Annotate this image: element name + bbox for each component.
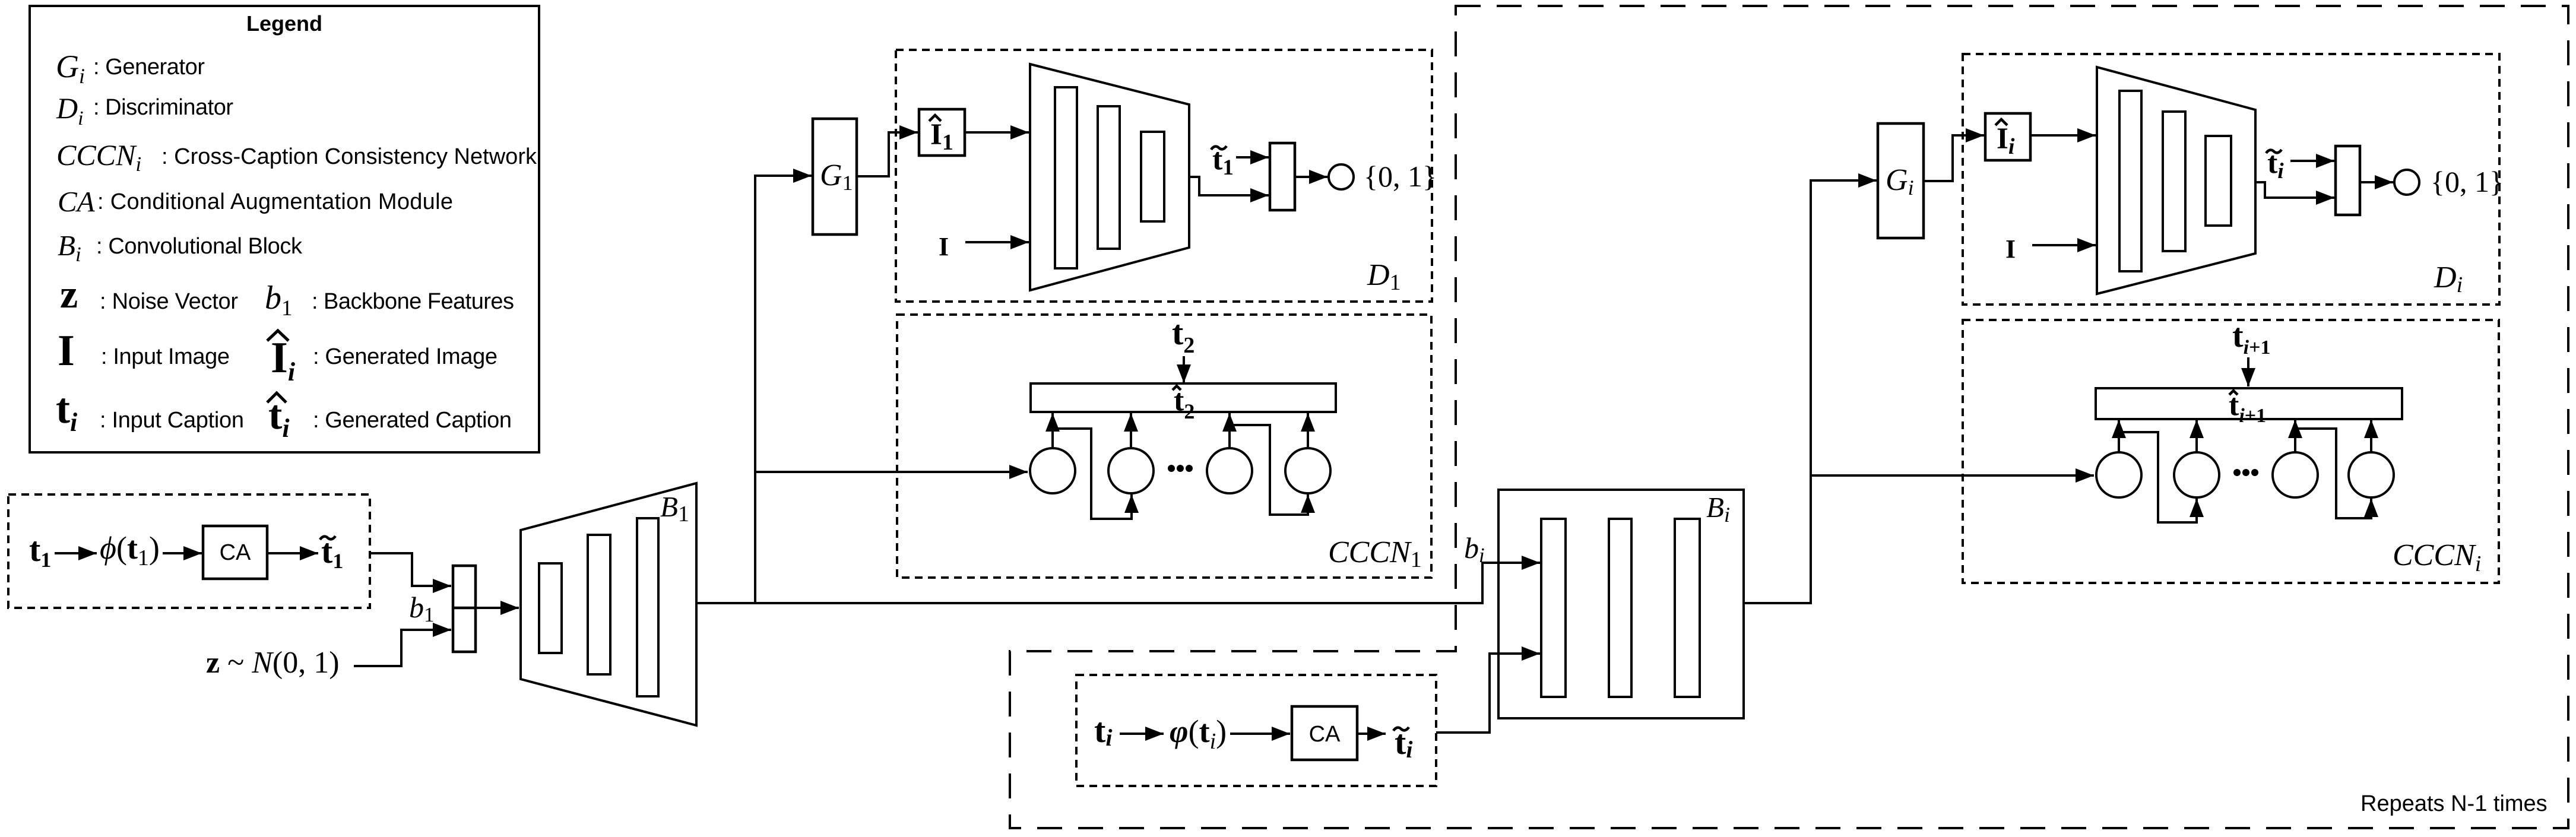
svg-text:I: I [58, 326, 75, 375]
wire I to D1 trapezoid [965, 241, 1029, 243]
decision circle 1 [1329, 164, 1354, 189]
svg-text:CCCNi: CCCNi [2393, 538, 2481, 576]
CCCNi circle 3 [2273, 452, 2318, 497]
wire I^i to Di trapezoid [2030, 134, 2096, 137]
concat box 3 [2336, 146, 2360, 215]
svg-text:Di: Di [56, 91, 84, 129]
CCCN1 up arrow 2 [1130, 413, 1132, 448]
CCCNi circle 4 [2349, 452, 2394, 497]
wire Gi to I^i [1924, 135, 1984, 181]
svg-text:t1: t1 [29, 530, 51, 572]
wire z to concat [354, 630, 451, 666]
G1 box [813, 119, 857, 234]
concat divider 1 [453, 607, 476, 610]
CCCNi up arrow 1 [2118, 420, 2120, 452]
D1 bar 3 [1141, 132, 1164, 221]
svg-text:: Backbone Features: : Backbone Features [312, 289, 514, 314]
CCCN1 circle 2 [1108, 448, 1154, 493]
svg-text:bi: bi [1464, 531, 1485, 567]
wire branch to CCCNi [1811, 474, 2094, 477]
CA module box 1 [203, 526, 267, 579]
Di dashed box [1963, 54, 2499, 305]
svg-text:Gi: Gi [56, 49, 85, 88]
CCCNi recurrent 3-4 [2295, 429, 2371, 518]
CCCNi dots [2233, 469, 2241, 476]
wire t~i to concat3 [2290, 160, 2334, 162]
decision circle 2 [2394, 170, 2419, 195]
wire concat2 to decision [1295, 176, 1327, 178]
Di bar 2 [2163, 112, 2185, 251]
wire D1 trap out to concat2 [1189, 177, 1269, 195]
svg-text:: Noise Vector: : Noise Vector [100, 289, 238, 314]
CCCNi circle 2 [2174, 452, 2219, 497]
svg-text:b1: b1 [265, 280, 293, 321]
svg-text:φ(ti): φ(ti) [1170, 714, 1227, 754]
t^i+1 bar rect [2096, 388, 2402, 419]
CCCNi circle 1 [2096, 452, 2141, 497]
CCCNi dashed box [1963, 320, 2499, 583]
Bi bar 2 [1609, 519, 1631, 697]
CCCN1 recurrent 3-4 [1230, 425, 1308, 515]
Bi bar 3 [1675, 519, 1700, 697]
svg-text:D1: D1 [1367, 258, 1401, 295]
D1 bar 2 [1098, 106, 1120, 249]
svg-text:Ii: Ii [271, 334, 296, 386]
Bi box [1498, 490, 1744, 718]
wire concat to B1 [476, 607, 519, 609]
svg-text:CCCNi: CCCNi [56, 138, 141, 176]
svg-text:z: z [60, 271, 78, 316]
svg-text:Di: Di [2434, 261, 2463, 297]
wire ti+1 down [2247, 357, 2249, 386]
wire phi to CA 2 [1230, 733, 1290, 735]
svg-text:ti+1: ti+1 [2232, 318, 2270, 359]
t1 conditioning dashed box [8, 494, 370, 608]
svg-text:I: I [2005, 234, 2016, 264]
B1 bar 2 [588, 535, 610, 674]
wire B1 output trunk horizontal [696, 563, 1540, 603]
CCCN1 circle 4 [1285, 448, 1330, 493]
CCCN1 up arrow 3 [1228, 413, 1231, 448]
wire phi to CA [163, 552, 202, 554]
svg-text:ti: ti [1094, 711, 1112, 751]
svg-text:t2: t2 [1174, 383, 1194, 423]
wire I^1 to D1 trapezoid [965, 131, 1029, 134]
CCCN1 up arrow 1 [1051, 413, 1054, 448]
svg-text:Gi: Gi [1886, 163, 1914, 199]
wire concat3 to decision [2360, 181, 2393, 183]
svg-text:: Discriminator: : Discriminator [93, 95, 233, 120]
CCCN1 recurrent 1-2 [1053, 429, 1132, 519]
Bi bar 1 [1541, 519, 1566, 697]
CCCN1 up arrow 4 [1307, 413, 1309, 448]
svg-text:ti: ti [56, 385, 78, 437]
wire trunk vertical to G1 [755, 176, 812, 603]
CCCNi up arrow 4 [2370, 420, 2372, 452]
wire t~i to Bi [1436, 654, 1540, 733]
B1 bar 1 [539, 563, 562, 653]
svg-text:: Generated Caption: : Generated Caption [313, 408, 512, 433]
t^2 bar rect [1031, 383, 1336, 412]
svg-text:Legend: Legend [246, 11, 322, 36]
svg-text:{0, 1}: {0, 1} [1364, 160, 1437, 193]
svg-text:Bi: Bi [58, 229, 81, 266]
svg-text:CA: CA [220, 540, 251, 565]
B1 bar 3 [637, 518, 658, 696]
CCCNi up arrow 2 [2195, 420, 2198, 452]
Gi box [1878, 123, 1924, 238]
CCCN1 dots [1168, 465, 1175, 472]
wire G1 to I^1 [857, 132, 918, 176]
I^1 box [919, 109, 965, 156]
CCCN1 circle 1 [1030, 448, 1075, 493]
Di bar 1 [2119, 91, 2141, 271]
svg-text:: Conditional Augmentation Mod: : Conditional Augmentation Module [97, 189, 453, 214]
D1 dashed box [896, 50, 1432, 302]
repeat outer dashed box [1010, 6, 2568, 828]
D1 trapezoid [1030, 64, 1189, 290]
svg-text:z ~ N(0, 1): z ~ N(0, 1) [206, 646, 340, 680]
svg-text:Bi: Bi [1706, 491, 1730, 527]
wire CA to t~1 [267, 552, 318, 554]
svg-text:CCCN1: CCCN1 [1328, 535, 1422, 572]
CCCNi up arrow 3 [2294, 420, 2296, 452]
wire ti to phi [1120, 733, 1164, 735]
B1 trapezoid [521, 483, 696, 725]
ti conditioning dashed box [1076, 675, 1436, 786]
I^i box [1985, 113, 2030, 160]
svg-text:Ii: Ii [1997, 122, 2015, 159]
svg-text:t2: t2 [1172, 313, 1194, 358]
wire t~1 to concat [369, 553, 451, 586]
svg-text:b1: b1 [409, 591, 435, 626]
svg-text:CA: CA [58, 185, 96, 218]
svg-text:G1: G1 [820, 158, 853, 195]
wire Bi output trunk [1744, 180, 1877, 603]
CCCNi recurrent 1-2 [2119, 432, 2197, 522]
svg-text:ϕ(t1): ϕ(t1) [100, 530, 160, 570]
wire branch to CCCN1 [755, 471, 1028, 473]
svg-text:: Convolutional Block: : Convolutional Block [96, 234, 303, 259]
svg-text:{0, 1}: {0, 1} [2431, 165, 2504, 198]
wire t~1 to concat2 [1236, 156, 1269, 158]
concat box 1 [453, 566, 476, 652]
Di trapezoid [2097, 67, 2255, 294]
legend box [30, 6, 539, 452]
CCCN1 dashed box [897, 315, 1431, 578]
svg-text:Repeats N-1 times: Repeats N-1 times [2360, 791, 2548, 816]
svg-text:: Input Image: : Input Image [101, 344, 230, 369]
svg-text:I1: I1 [930, 118, 953, 155]
svg-text:: Cross-Caption Consistency Ne: : Cross-Caption Consistency Network [161, 144, 537, 169]
CCCN1 circle 3 [1207, 448, 1252, 493]
svg-text:: Generator: : Generator [93, 55, 205, 80]
svg-text:: Input Caption: : Input Caption [100, 408, 244, 433]
D1 bar 1 [1055, 87, 1077, 268]
Di bar 3 [2206, 136, 2231, 226]
svg-text:CA: CA [1309, 722, 1341, 747]
svg-text:B1: B1 [660, 490, 689, 527]
svg-text:ti+1: ti+1 [2229, 388, 2266, 427]
wire Di trap out to concat3 [2255, 182, 2334, 198]
svg-text:I: I [939, 232, 949, 261]
wire t1 to phi [55, 552, 97, 554]
concat box 2 [1270, 143, 1295, 210]
wire CA to t~i [1357, 733, 1386, 735]
CA module box 2 [1292, 706, 1357, 760]
wire I to Di trapezoid [2032, 244, 2096, 246]
wire t2 down [1183, 356, 1185, 383]
svg-text:: Generated Image: : Generated Image [313, 344, 498, 369]
